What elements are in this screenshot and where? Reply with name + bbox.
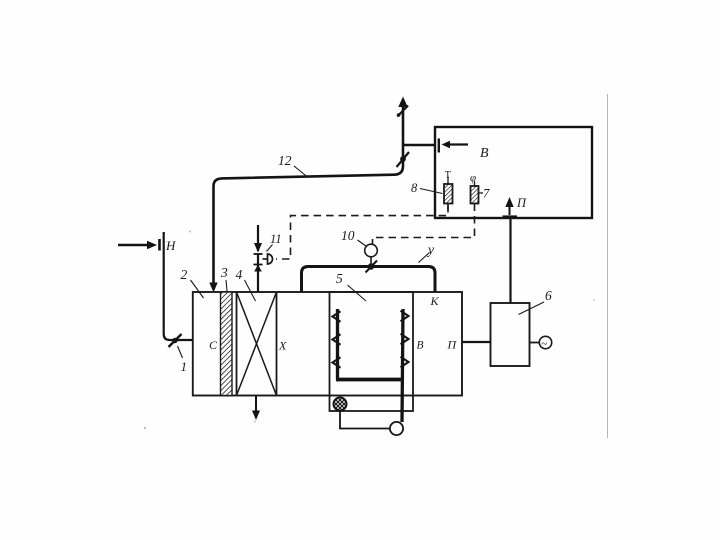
heat exchanger 4 (X section) [237, 292, 277, 396]
svg-text:10: 10 [341, 228, 355, 243]
fan motor [539, 336, 551, 348]
svg-text:12: 12 [278, 153, 292, 168]
svg-text:В: В [417, 340, 424, 352]
spray chamber 5 [330, 292, 414, 411]
drain arrow below box [255, 396, 257, 413]
svg-text:7: 7 [483, 187, 490, 201]
svg-text:Х: Х [278, 339, 287, 353]
supply opening bar [503, 215, 518, 218]
temperature sensor 8 [444, 184, 453, 204]
spray header right / riser [402, 309, 403, 422]
svg-text:К: К [430, 294, 440, 308]
nozzles left [333, 311, 341, 368]
svg-text:П: П [516, 196, 527, 210]
svg-text:~: ~ [541, 338, 547, 350]
svg-text:В: В [480, 146, 489, 161]
drain pipe to pump [340, 411, 390, 429]
svg-text:П: П [447, 338, 458, 352]
pipe 12 arrowhead down into AHU [209, 283, 217, 293]
page rule (faint scan line right side) [607, 94, 609, 438]
intake damper 1 [169, 334, 182, 347]
svg-text:8: 8 [411, 181, 418, 195]
actuator 10 (circle) [365, 244, 378, 257]
spray header left [336, 309, 339, 380]
control line from sensor 7 to actuator 10 (dashed) [373, 204, 475, 245]
scan specks [144, 427, 146, 429]
svg-text:6: 6 [545, 288, 552, 303]
recirculation damper (valve on stack) [397, 152, 410, 167]
filter 3 (hatched strip) [221, 292, 233, 396]
room exhaust opening tick [438, 139, 440, 153]
svg-text:4: 4 [236, 267, 243, 282]
svg-text:2: 2 [181, 267, 188, 282]
exhaust arrowhead up [398, 97, 407, 108]
svg-text:1: 1 [181, 359, 188, 374]
duct room to exhaust stack [403, 144, 435, 147]
bottom header [336, 378, 404, 382]
svg-text:11: 11 [270, 232, 282, 246]
duct AHU to fan [462, 341, 491, 343]
valve 11 actuator (D) [268, 254, 273, 264]
duct fan to room [509, 219, 511, 303]
exhaust stack + recirculation pipe 12 [214, 100, 404, 284]
control line from sensor 8 to valve 11 (dashed) [276, 205, 448, 259]
svg-text:5: 5 [336, 271, 343, 286]
svg-text:С: С [209, 338, 218, 352]
valve 11 body [254, 253, 263, 255]
pump (circle) [390, 422, 403, 435]
supply arrow into room [509, 203, 511, 215]
fan box 6 [491, 303, 530, 366]
humidity sensor 7 [471, 186, 479, 204]
valve on pipe 9 [368, 263, 374, 269]
water pipe 9 (top U) [302, 267, 436, 292]
pump suction filter (hatched circle) [333, 397, 346, 410]
label 7 [479, 192, 484, 194]
exhaust damper slash [397, 106, 408, 117]
room B (conditioned space) [435, 127, 592, 218]
nozzles right [401, 311, 409, 368]
svg-text:Н: Н [165, 238, 176, 253]
svg-text:φ: φ [470, 172, 476, 184]
room exhaust arrow [442, 141, 469, 148]
svg-text:3: 3 [220, 265, 228, 280]
heating medium line into valve 11 [257, 225, 259, 251]
outside air arrow H [118, 239, 160, 251]
air handler box 2 [193, 292, 462, 396]
intake duct line [164, 232, 193, 340]
